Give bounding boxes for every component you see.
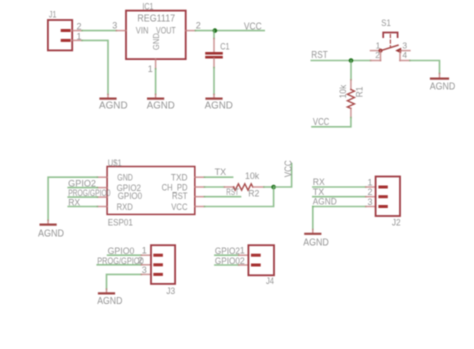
pin stub CH_PD (right) — [195, 186, 205, 188]
connector J4 — [248, 245, 274, 275]
resistor R2 10k — [224, 184, 264, 190]
wire AGND to J2 pin3 — [313, 206, 366, 208]
switch S1 — [371, 33, 410, 61]
svg-text:VCC: VCC — [244, 22, 262, 33]
pin stub RST (right) — [195, 196, 205, 198]
svg-text:J2: J2 — [392, 217, 401, 227]
svg-text:AGND: AGND — [38, 229, 64, 240]
pin stub IC1 GND — [155, 59, 157, 69]
svg-text:J4: J4 — [266, 276, 274, 286]
wire C1 to AGND — [213, 68, 215, 95]
ground AGND (J3) — [97, 289, 122, 307]
junction node RST/R1 — [349, 58, 354, 63]
svg-text:GND: GND — [151, 33, 161, 50]
wire TXD to TX label — [205, 176, 233, 178]
op-amp/regulator IC1 REG1117 — [126, 11, 186, 60]
pin stub TXD (right) — [195, 176, 205, 178]
wire RX label — [68, 206, 97, 208]
svg-text:TX: TX — [215, 167, 227, 177]
svg-text:1: 1 — [376, 40, 381, 50]
wire GND to AGND (left) — [48, 177, 97, 220]
ground AGND (under IC1) — [147, 94, 175, 111]
pin stub IC1 VOUT — [186, 30, 196, 32]
svg-text:3: 3 — [142, 265, 147, 275]
wire GPIO2 label — [68, 187, 97, 189]
wire J1-2 to IC1 VIN — [82, 30, 116, 32]
pin stub J2-2 — [366, 196, 376, 198]
svg-text:AGND: AGND — [147, 101, 175, 112]
module U$1 ESP01 — [107, 167, 195, 215]
svg-text:VCC: VCC — [171, 202, 188, 212]
svg-text:2: 2 — [196, 21, 201, 31]
ground AGND (under J1) — [99, 94, 128, 111]
pin stub RXD (left) — [97, 206, 107, 208]
svg-text:R2: R2 — [248, 188, 259, 198]
connector J3 — [151, 245, 175, 284]
capacitor C1 — [207, 39, 222, 68]
svg-text:3: 3 — [368, 197, 373, 207]
svg-text:RST: RST — [172, 191, 188, 201]
resistor R1 10k — [347, 80, 354, 118]
svg-text:TXD: TXD — [171, 172, 188, 182]
ground AGND (left of ESP01) — [38, 220, 64, 239]
pin stub J1-1 — [72, 39, 82, 41]
svg-text:TX: TX — [313, 187, 325, 197]
svg-text:2: 2 — [375, 50, 380, 60]
wire J3 pin3 to AGND — [107, 274, 142, 289]
svg-text:2: 2 — [368, 187, 373, 197]
wire GPIO0 to J4 pin2 — [215, 264, 239, 266]
pin stub GPIO0 (left) — [97, 196, 107, 198]
svg-text:AGND: AGND — [313, 197, 337, 207]
pin stub VCC (right) — [195, 206, 205, 208]
pin stub J3-2 — [141, 264, 151, 266]
svg-text:AGND: AGND — [303, 237, 329, 248]
wire junction up to VCC supply — [274, 164, 292, 188]
svg-text:C1: C1 — [220, 41, 229, 51]
wire GPIO2 to J4 pin1 — [215, 254, 239, 256]
pin stub J2-1 — [366, 186, 376, 188]
wire IC1 VOUT to VCC — [195, 30, 264, 32]
svg-text:AGND: AGND — [97, 296, 122, 307]
wire PROG/GPIO0 to J3 pin2 — [97, 264, 141, 266]
svg-text:10k: 10k — [245, 171, 260, 181]
svg-text:VIN: VIN — [136, 25, 149, 35]
wire J1-1 to AGND — [82, 40, 108, 94]
wire IC1 GND to AGND — [155, 69, 157, 95]
wire TX to J2 pin2 — [313, 196, 366, 198]
svg-text:R1: R1 — [354, 87, 364, 98]
wire CH_PD to R2 — [205, 186, 225, 188]
junction node R2/VCC — [271, 185, 276, 190]
ground AGND (S1) — [430, 74, 456, 93]
svg-text:AGND: AGND — [99, 101, 128, 112]
svg-text:ESP01: ESP01 — [108, 217, 133, 227]
wire S1 pin4 to AGND — [410, 61, 440, 74]
svg-text:REG1117: REG1117 — [137, 13, 175, 24]
svg-text:1: 1 — [142, 246, 147, 256]
pin stub GPIO2 (left) — [97, 187, 107, 189]
pin stub J1-2 — [72, 30, 82, 32]
svg-text:IC1: IC1 — [142, 1, 153, 11]
wire RST to S1 — [311, 60, 370, 62]
pin stub J4-2 — [239, 264, 249, 266]
svg-text:3: 3 — [112, 21, 117, 31]
wire PROG/GPIO0 label — [68, 196, 97, 198]
wire junction to C1 — [213, 31, 215, 39]
ground AGND (below J2) — [303, 230, 329, 249]
svg-text:RST: RST — [311, 50, 328, 61]
connector J1 — [48, 20, 72, 50]
pin stub J3-3 — [141, 273, 151, 275]
svg-text:RST: RST — [226, 187, 239, 197]
wire RST junction down to R1 — [350, 61, 352, 80]
wire RST (right) — [205, 196, 241, 198]
pin stub J2-3 — [366, 206, 376, 208]
pin stub J4-1 — [239, 254, 249, 256]
svg-text:1: 1 — [368, 177, 373, 187]
svg-text:AGND: AGND — [430, 81, 456, 92]
junction node VOUT/C1 — [213, 28, 218, 33]
wire R2 to junction — [264, 186, 274, 188]
wire VCC pin to junction — [205, 187, 274, 207]
wire RX to J2 pin1 — [313, 186, 366, 188]
ground AGND (under C1) — [205, 94, 233, 111]
svg-text:2: 2 — [240, 256, 245, 266]
wire AGND label down — [312, 207, 314, 230]
svg-text:4: 4 — [402, 50, 407, 60]
connector J2 — [376, 177, 400, 217]
svg-text:GND: GND — [117, 172, 133, 182]
svg-text:J1: J1 — [49, 9, 57, 19]
svg-text:GPIO0: GPIO0 — [118, 191, 142, 201]
svg-text:1: 1 — [240, 246, 245, 256]
svg-text:U$1: U$1 — [108, 158, 122, 168]
wire GPIO0 to J3 pin1 — [108, 254, 142, 256]
svg-text:3: 3 — [402, 40, 407, 50]
svg-text:AGND: AGND — [205, 101, 233, 112]
svg-text:J3: J3 — [166, 286, 175, 296]
pin stub IC1 VIN — [116, 30, 126, 32]
svg-text:RX: RX — [313, 177, 325, 187]
pin stub GND (left) — [97, 176, 107, 178]
svg-text:VCC: VCC — [284, 160, 295, 177]
svg-text:10k: 10k — [338, 84, 348, 98]
svg-text:1: 1 — [148, 64, 153, 74]
svg-text:RXD: RXD — [117, 202, 134, 212]
svg-text:S1: S1 — [381, 18, 391, 28]
pin stub J3-1 — [141, 254, 151, 256]
svg-text:VCC: VCC — [313, 117, 329, 128]
wire R1 to VCC (bottom) — [312, 118, 351, 127]
